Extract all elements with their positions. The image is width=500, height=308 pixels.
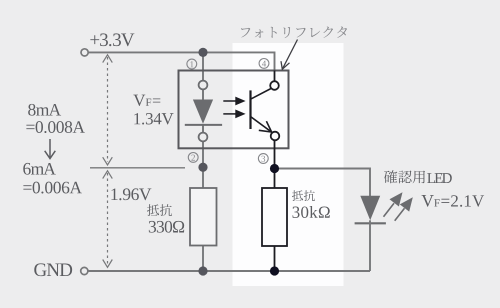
label 8mA [28,104,61,116]
label 1.96V [111,188,151,200]
resistor R2 30kohm body [262,188,287,246]
LED D2 cathode bar [355,222,386,224]
LED emission arrow 2 [395,197,413,221]
label =0.006A [23,182,82,194]
wire pin 4 up to rail [274,71,276,82]
white highlight panel [233,43,344,286]
wire anode branch from rail to pin 1 [202,52,204,80]
current change arrow 8mA to 6mA [45,139,56,159]
dimension dashed line lower segment [103,171,113,267]
label +3.3V [90,33,134,46]
terminal GND [81,267,88,274]
wire 330 resistor to GND [202,246,204,272]
label 330 ohm [149,221,184,233]
wire pin 3 down to node [274,140,276,188]
label teikou (resistor) right [292,190,315,201]
pin label 4 circled [259,59,269,69]
wire GND rail [88,270,370,272]
wire pin 2 to node [202,142,204,189]
label 30k ohm [293,206,330,218]
label VF=2.1V [421,195,484,207]
wire LED cathode to GND [369,220,371,271]
phototransistor collector line [251,89,272,100]
junction dot node3/LED branch [270,164,279,173]
label 1.34V [134,113,173,125]
label kakuninyou (confirmation) LED [384,170,425,183]
terminal +3.3V [81,49,88,56]
pointer line photoreflector label [281,40,298,70]
pin 1 circle (LED anode pin) [199,81,208,90]
pin 4 circle (collector pin) [270,81,279,90]
opto LED D1 triangle [193,100,213,124]
wire 30k resistor to GND [274,246,276,271]
opto LED cathode bar [185,124,222,126]
label 6mA [23,163,56,175]
photoreflector outline box U1 [179,71,289,149]
light arrow 2 [223,110,245,119]
label teikou (resistor) left [147,204,172,216]
label VF= [133,95,160,106]
light arrow 1 [223,97,245,106]
pin label 1 circled [187,59,197,69]
pin 2 circle (LED cathode pin) [199,133,208,142]
wire node 3 to LED branch [275,169,371,197]
dimension dashed line upper segment [103,55,113,165]
label =0.008A [26,121,85,133]
label LED (latin part) [427,173,452,183]
label photoreflector (katakana) [241,27,347,39]
junction dot rail/anode [198,48,207,57]
phototransistor Q1 base bar [249,90,251,129]
opto LED wire cathode [202,125,204,132]
pin label 3 circled [258,154,268,164]
junction node dot 1.96V [198,163,207,172]
pin label 2 circled [188,153,198,163]
wire +3.3V rail [89,52,275,70]
tick reference line at node [90,167,185,169]
LED D2 triangle [360,196,380,221]
LED emission arrow 1 [384,192,403,217]
resistor R1 330ohm body [190,188,217,246]
label GND [34,263,72,276]
pin 3 circle (emitter pin) [271,132,280,141]
opto LED wire anode [202,90,204,101]
phototransistor emitter line with arrow [251,117,272,133]
junction dot GND/30k [270,266,279,275]
junction dot GND/330 [198,266,207,275]
